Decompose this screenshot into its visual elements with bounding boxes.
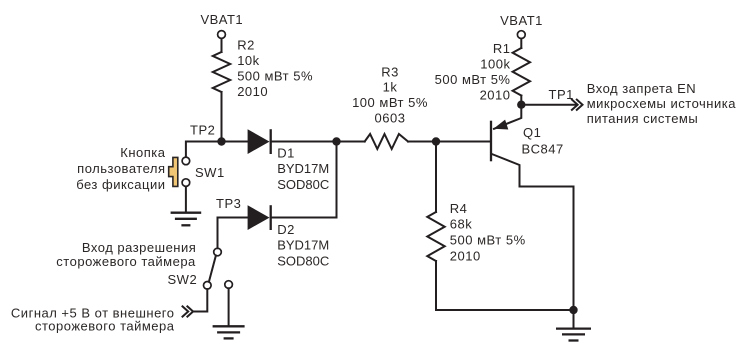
resistor R2	[213, 52, 230, 92]
connector arrow signal input	[183, 306, 194, 316]
ground under SW1	[171, 213, 202, 226]
terminal circle VBAT1 left	[218, 31, 226, 39]
wire TP3 corner to D2 anode	[218, 218, 248, 249]
svg-text:Q1: Q1	[523, 125, 541, 140]
label EN caption	[587, 81, 737, 126]
svg-text:2010: 2010	[237, 84, 268, 99]
label R2 values	[237, 38, 313, 99]
wire node C down to R4	[435, 142, 437, 213]
junction dot node TP1	[517, 101, 525, 109]
svg-text:D1: D1	[277, 146, 295, 161]
resistor R1	[513, 48, 530, 96]
svg-text:100 мВт 5%: 100 мВт 5%	[352, 95, 428, 110]
svg-text:10k: 10k	[237, 53, 259, 68]
svg-text:Кнопка: Кнопка	[120, 145, 165, 160]
wire node TP2 to SW1 top	[186, 142, 222, 158]
svg-text:500 мВт 5%: 500 мВт 5%	[450, 233, 526, 248]
terminal circle VBAT1 right	[517, 31, 525, 39]
junction dot node TP2	[217, 137, 225, 145]
svg-text:SOD80C: SOD80C	[277, 177, 329, 192]
label R4 values	[450, 201, 526, 263]
svg-text:1k: 1k	[383, 80, 398, 95]
svg-text:500 мВт 5%: 500 мВт 5%	[435, 72, 511, 87]
svg-text:пользователя: пользователя	[77, 161, 165, 176]
svg-text:сторожевого таймера: сторожевого таймера	[35, 319, 175, 334]
svg-text:500 мВт 5%: 500 мВт 5%	[237, 68, 313, 83]
resistor R3	[365, 134, 408, 149]
wire VBAT1 right to R1 top	[520, 39, 522, 48]
svg-text:без фиксации: без фиксации	[76, 177, 165, 192]
svg-text:R3: R3	[381, 64, 399, 79]
wire VBAT1 left to R2 top	[221, 39, 223, 52]
wire node TP1 to EN output	[521, 104, 577, 106]
svg-text:BYD17M: BYD17M	[277, 238, 329, 253]
label D1 values	[277, 146, 329, 193]
resistor R4	[427, 212, 444, 261]
svg-text:TP2: TP2	[190, 123, 215, 138]
wire R2 bottom to node TP2	[221, 92, 223, 142]
wire SW2 left throw to signal input	[193, 289, 208, 311]
wire D1 cathode to node B	[272, 141, 337, 143]
svg-text:SW1: SW1	[195, 165, 225, 180]
svg-text:Вход запрета EN: Вход запрета EN	[587, 81, 697, 96]
label D2 values	[277, 222, 329, 269]
connector arrow EN output	[572, 100, 583, 110]
svg-text:D2: D2	[277, 222, 295, 237]
wire R1 bottom to node TP1	[520, 96, 522, 105]
svg-text:0603: 0603	[375, 110, 406, 125]
junction dot node B	[332, 137, 340, 145]
ground under SW2	[213, 326, 245, 338]
label external watchdog caption	[11, 306, 175, 334]
label watchdog enable caption	[56, 240, 196, 269]
svg-text:2010: 2010	[450, 248, 481, 263]
label button caption	[76, 145, 166, 192]
wire node to ground	[573, 310, 575, 328]
diode D2	[248, 205, 271, 230]
junction dot emitter-ground node	[569, 306, 577, 314]
wire SW2 right throw to ground	[228, 288, 230, 326]
svg-text:BC847: BC847	[522, 142, 564, 157]
wire node B to R3	[337, 141, 365, 143]
svg-text:VBAT1: VBAT1	[500, 13, 543, 28]
svg-text:R2: R2	[237, 38, 255, 53]
wire node TP2 to D1 anode	[222, 141, 248, 143]
svg-text:TP1: TP1	[549, 87, 574, 102]
transistor Q1	[491, 105, 574, 310]
switch SW2 (SPDT)	[204, 248, 233, 289]
wire SW1 bottom to ground	[185, 187, 187, 213]
wire R4 bottom to ground bus	[436, 261, 574, 310]
svg-text:R4: R4	[450, 201, 468, 216]
label R3 values	[352, 64, 428, 125]
svg-text:TP3: TP3	[216, 196, 241, 211]
junction dot node C	[432, 137, 440, 145]
label Q1	[522, 125, 564, 157]
svg-text:R1: R1	[493, 41, 511, 56]
switch SW1 (pushbutton)	[169, 157, 190, 186]
svg-text:2010: 2010	[480, 88, 511, 103]
svg-text:100k: 100k	[480, 57, 510, 72]
svg-text:микросхемы источника: микросхемы источника	[587, 96, 737, 111]
svg-text:SOD80C: SOD80C	[277, 254, 329, 269]
ground at emitter	[556, 329, 591, 341]
diode D1	[248, 129, 271, 154]
wire node C to Q1 base	[436, 141, 490, 143]
wire D2 cathode up to node B	[272, 142, 337, 218]
svg-text:Вход разрешения: Вход разрешения	[82, 240, 196, 255]
svg-text:питания системы: питания системы	[587, 111, 699, 126]
svg-text:68k: 68k	[450, 217, 472, 232]
svg-text:BYD17M: BYD17M	[277, 161, 329, 176]
svg-text:VBAT1: VBAT1	[200, 12, 243, 27]
wire R3 to node C	[408, 141, 436, 143]
svg-text:сторожевого таймера: сторожевого таймера	[56, 254, 196, 269]
label R1 values	[435, 41, 511, 103]
svg-text:SW2: SW2	[168, 272, 198, 287]
